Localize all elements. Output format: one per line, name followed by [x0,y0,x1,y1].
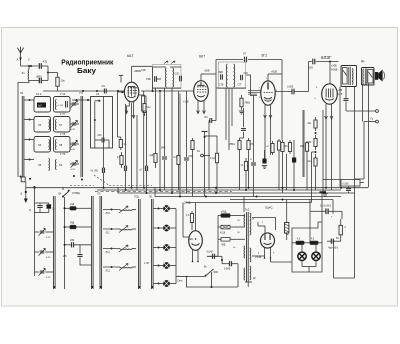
wire y179 right [323,180,364,183]
capacitor C1 А32 [39,60,48,69]
node osc [94,102,96,122]
svg-text:6-25: 6-25 [46,257,51,259]
contact K2 [153,225,176,232]
wire osc internal [94,120,96,148]
capacitor C28 [37,203,42,213]
coil Л10 [103,206,136,215]
svg-text:Л4: Л4 [38,143,42,147]
wire x103.5 [103,97,105,169]
lamps enclosure [292,222,322,272]
ground right [322,190,327,197]
svg-text:5А: 5А [336,237,339,240]
capacitor C23 к2 [140,166,148,193]
top wire segment2 [309,61,312,63]
capacitor C27 dark [262,150,267,169]
trimmer C row2 [70,120,79,131]
tap link 220 [218,238,245,247]
wire x191.5 [191,138,194,196]
svg-text:З4Д: З4Д [70,223,75,225]
capacitor C20 [344,87,349,111]
capacitor C19 К29 [309,59,339,70]
grid lines V2-V3 [248,91,261,95]
wire Гр down [355,122,364,180]
contact K5 [153,280,176,287]
wire x125.5 [125,104,127,166]
svg-text:0,005: 0,005 [287,86,294,89]
svg-text:4218: 4218 [220,233,226,235]
svg-text:20Я: 20Я [70,240,75,242]
wire y91 T1-V2 [141,90,194,92]
antenna A [17,47,24,66]
resistor chain R18 [308,154,318,170]
electrolytic C37 [285,200,289,241]
svg-text:6Г2: 6Г2 [262,54,268,58]
resistor R4 tall [142,91,147,187]
wire x117.5 [118,91,121,137]
svg-text:А32: А32 [43,60,48,64]
node row3 [24,139,34,141]
resistor R13 к2 [266,141,274,155]
resistor R8 0+ [174,91,181,190]
wire x308.5 drop [308,62,310,92]
svg-text:С1Б: С1Б [141,69,146,72]
svg-text:Л13: Л13 [106,270,111,273]
Тр2 primary w1 [243,214,246,226]
capacitor C14 top [245,57,247,63]
svg-text:С5: С5 [102,84,106,88]
wire V1 to R3 [138,95,144,100]
svg-text:6-25: 6-25 [71,169,76,171]
wire coil L1 down-left [18,81,29,97]
capacitor C13 С20 [175,73,182,82]
V3 labels [259,71,279,100]
node row2 [24,119,34,121]
capacitor C16 [238,73,249,87]
svg-text:4/З0В: 4/З0В [331,69,338,72]
wire Тр1 down [340,87,355,188]
svg-text:0,0Н5: 0,0Н5 [224,269,231,271]
svg-text:+б,3В: +б,3В [255,257,262,259]
rail x64.5 [64,197,66,289]
T2 top wire [216,52,282,60]
wire R20 bottom [338,240,341,242]
capacitor C38 5А [327,237,339,244]
svg-text:(П:ЗВД: (П:ЗВД [72,193,80,195]
capacitor C25 [184,91,193,193]
wire x216 drop [216,60,219,121]
resistor R7 к2Д [150,88,158,168]
svg-text:6Е5: 6Е5 [189,238,194,241]
lamp wires [292,243,322,272]
node row4 [24,159,34,161]
svg-text:С2 2': С2 2' [36,93,42,96]
T1 primary coil [164,61,168,87]
bar A [53,196,55,289]
coil box Л5 [38,159,49,171]
wire 0005 box [341,180,360,187]
Тр2 secondary w2 [250,248,262,262]
wire T2 right [246,75,257,96]
svg-text:Радиоприемник: Радиоприемник [61,57,113,66]
resistor R10 ЛВ0к [230,138,242,190]
switch Вк [204,267,218,277]
tube V4 6П3 [321,55,337,104]
tube V2 6К7 [194,55,209,102]
resistor R14 [281,140,284,193]
svg-text:6ЯЗ: 6ЯЗ [161,148,166,150]
coil box Л7 [54,114,71,132]
svg-text:210: 210 [98,134,103,137]
coil L1 [22,65,31,81]
bus y196 [155,187,341,198]
resistor R19 [186,211,194,225]
T2 shield box [219,62,246,89]
contact K1 [153,205,176,212]
bus y187 [26,187,369,189]
right frame [334,186,355,278]
V5 cathode pins [252,248,275,259]
ground З [20,188,27,203]
svg-text:2' Л6: 2' Л6 [60,94,66,96]
svg-text:6-25: 6-25 [71,129,76,131]
V1 pins bottom [125,101,135,119]
svg-text:Л5: Л5 [38,163,42,167]
svg-text:6К7: 6К7 [199,55,205,59]
contact K3 [153,244,176,251]
svg-text:1,Лб: 1,Лб [144,263,149,265]
wire bus y91 left [43,90,125,92]
coil Л11 [103,226,136,235]
wire x232 [231,88,233,126]
capacitor C17 И3 [205,116,217,190]
svg-text:6-25: 6-25 [71,149,76,151]
T1 secondary coil [171,61,175,87]
svg-text:+1ВБ: +1ВБ [204,70,210,73]
wire x137 [136,115,138,190]
svg-text:З: З [20,192,22,196]
speaker [375,69,385,81]
tube V3 6Г2 [261,54,275,106]
switch bar П4 label [20,91,24,95]
wire x160 [159,91,161,190]
tube V1 6А7 [124,54,138,102]
contact K4 [153,262,176,269]
capacitor C10 С5 [102,84,107,94]
wire V3-V4 y91.5 [275,91,309,93]
coil box Л6 [54,94,71,112]
resistor ladder З4Д [64,223,92,229]
label Сеть [177,274,183,283]
trimmer C row4 [70,160,79,171]
terminal ЗС [197,151,210,157]
label 5Ц4С [265,206,274,210]
coil Л12 [103,245,136,254]
resistor R5 ЛВ0к [240,95,251,110]
capacitor C2 ВИ0 [29,75,48,84]
svg-text:С7Б: С7Б [219,85,224,87]
wire x368.5 down [368,111,370,187]
trimmer C32 [35,268,54,279]
svg-text:Сеть: Сеть [177,279,183,283]
svg-text:6А7: 6А7 [127,54,133,58]
lamp link R21 [296,239,304,245]
resistor R2 +6 [119,137,127,150]
wire x286.5 [286,154,288,190]
Тр2 primary w3 [243,268,246,280]
resistor R11 ЛЗ [247,138,254,187]
resistor R20 [339,219,347,241]
wire mains to trans [237,264,239,287]
coil box Л4 [34,137,51,153]
switch bar П4 [21,96,31,188]
svg-text:Л3: Л3 [38,123,42,127]
bus y193 [118,187,355,194]
svg-text:Л1: Л1 [22,71,26,75]
svg-text:Л12: Л12 [106,251,111,254]
wire x244 T2 [243,197,245,213]
V6 pins [192,250,199,262]
top-cap wire V1 [119,71,141,83]
wire antenna to C1 [21,58,39,68]
wire x172 [171,88,173,193]
tube V5 5Ц4С [261,233,275,248]
Тр2 primary w2 [243,246,246,258]
svg-text:+В2В: +В2В [271,71,277,74]
V4 pins [325,104,333,119]
capacitor C40 [240,108,246,138]
svg-text:П4: П4 [20,91,24,95]
cap group wires [35,203,49,276]
terminal Гр top [346,110,378,113]
switch bar П1 [20,96,84,181]
capacitor C12 С2Б [146,76,161,82]
bar B [91,196,93,289]
V1 pin left [118,91,125,93]
T2 primary coil [226,64,227,87]
V5 +B wire [271,258,293,262]
resistor R12 ч0 [241,158,248,190]
label 20+20 [320,205,332,208]
svg-text:Ч1·300: Ч1·300 [91,171,99,173]
mains bottom wire [186,272,238,288]
V5 anode wires [252,218,276,233]
V6 top wire [192,203,196,231]
wire x322 down [321,193,323,222]
terminal Гр bottom [364,117,378,123]
tap link 127 [218,225,245,234]
bus y202 [186,202,312,204]
wire x333 up [332,200,334,214]
V3 pins arrows [264,105,272,119]
trimmer C30 [35,228,54,239]
T2 bottom wire [219,87,247,89]
svg-text:0,0Н2: 0,0Н2 [207,252,214,254]
label ИВ [338,89,343,96]
mains wire [186,276,205,278]
wire C1-C2 right link [47,66,49,81]
resistor chain R17 [308,135,318,153]
wire chain down [315,170,317,190]
V4 side labels [315,87,319,100]
svg-text:2' Л8: 2' Л8 [60,134,66,136]
bar C [98,194,102,290]
svg-text:Л11: Л11 [106,232,111,235]
svg-text:С2Б: С2Б [146,78,151,81]
coil box Л9 [55,154,65,170]
Тр2 secondary w1 [250,213,255,235]
capacitor C18 0.005 [287,86,294,95]
output transformer Тр1 [341,66,357,87]
label З2 5Д [184,202,191,205]
resistor R13b [277,139,280,190]
V4 pin drops [326,119,332,190]
T1 shield box [153,65,182,89]
V2 anode wire [201,70,216,81]
wire x311 down2 [311,193,313,203]
caps group label [29,209,31,212]
svg-text:5Ц4С: 5Ц4С [265,206,274,210]
coil box Л3 [34,117,51,133]
capacitor C11 210 [95,134,109,148]
svg-text:6-125: 6-125 [58,105,64,107]
node row1 [24,99,91,101]
svg-text:Л10: Л10 [106,212,111,215]
switch В1 blade [59,187,80,198]
svg-text:Тр2: Тр2 [245,209,250,212]
svg-text:ВИ0: ВИ0 [37,75,43,79]
wire V1 anode up [132,66,153,82]
label +12В [183,101,189,104]
switch bar П1 label [80,91,84,95]
wire V3 pin drops [265,118,271,160]
capacitor C29 dark [47,203,57,213]
wire x180 [179,94,181,197]
svg-text:6ЛЗГ: 6ЛЗГ [321,55,332,60]
svg-text:Л9: Л9 [59,163,63,167]
svg-text:к7ВД: к7ВД [221,212,227,214]
wire x131.5 [131,103,133,187]
svg-text:ЗЧ: ЗЧ [197,151,200,153]
svg-text:ВД0: ВД0 [219,72,224,74]
bar D [134,197,140,290]
svg-text:+12В: +12В [183,101,189,104]
capacitor C35 0,0Н5 [221,256,238,270]
tube V6 6Е5С [189,231,203,251]
tap link 110 [218,212,245,218]
resistor R15 6ЯЗ [285,140,292,154]
svg-text:Л7: Л7 [59,123,63,127]
dial lamp HL1 [298,252,306,260]
resistor R3 Ч1к [143,100,152,116]
resistor ladder К4Д [64,204,92,210]
dashed enclosure [70,175,152,185]
contact rail [176,209,187,284]
ground under R5 [239,111,244,114]
svg-text:к2Д: к2Д [150,155,154,157]
resistor R23 [300,141,309,190]
svg-text:0,005: 0,005 [343,183,350,186]
dial lamp HL2 [312,252,320,260]
svg-text:0,1Д: 0,1Д [210,158,215,160]
svg-text:4): 4) [29,209,31,212]
resistor R6 04Д [117,152,123,168]
svg-text:С20: С20 [175,73,180,76]
label 1Лб [144,263,149,265]
switch linkage dashes [95,190,232,192]
V6 left wire [183,203,189,238]
wire x146.5 [146,111,148,166]
wire x311 stub [312,152,316,193]
wire x323 [322,110,324,193]
lamp link R22 [310,239,318,245]
svg-text:+20В: +20В [331,65,337,68]
T1 bottom wire [153,87,182,89]
svg-text:К4Д: К4Д [70,204,75,206]
resistor R9 С/Д [205,136,219,193]
wire x229 [228,88,230,150]
svg-text:А: А [17,58,19,62]
resistor chain R16 [308,117,318,134]
trimmer C row3 [70,140,79,151]
svg-text:К29: К29 [309,67,314,70]
svg-text:Баку: Баку [77,66,97,75]
capacitor C34 0,0Н2 [207,252,223,259]
wire x282 long [281,60,283,141]
svg-text:20Д: 20Д [300,146,305,148]
resistor R1 10k [48,73,65,92]
capacitor C33 к55 [63,245,92,265]
svg-text:Л7: Л7 [243,52,247,56]
capacitor C24 6ЯЗ [161,88,167,190]
svg-text:2' Л7: 2' Л7 [60,114,66,116]
capacitor C39 in box [346,186,351,193]
top-cap bar V6 [202,132,208,197]
cap ladder 20Я [64,240,92,247]
wire left rail [17,96,19,177]
component dark x294 [292,140,296,190]
oscillator box [91,93,113,148]
trimmer C31 [35,248,54,259]
Тр2 bottom wire [245,282,252,287]
V3 anode up [268,74,282,81]
svg-text:6-25: 6-25 [46,277,51,279]
Тр2 secondary w3 [250,266,257,280]
tap rail [207,216,218,257]
wire x226 [225,88,227,140]
T1 top wire [153,66,182,68]
potentiometer body [302,110,304,177]
coil box Л2 [34,93,51,112]
svg-text:6-25: 6-25 [46,237,51,239]
svg-text:П7Д: П7Д [134,197,139,199]
capacitor C26 [250,96,256,197]
capacitor C36 electrolytic [310,200,342,243]
svg-text:Др: Др [361,59,365,63]
wire T1 left down [141,67,153,91]
bus y199 [230,199,333,201]
bar E [149,197,153,290]
T2 secondary coil [234,64,235,87]
speaker wires [363,84,369,122]
capacitor C22 [125,166,127,190]
svg-text:2' Л9: 2' Л9 [60,154,66,156]
dark junction [320,191,327,193]
wire V4 top [329,62,331,85]
coil Л13 [103,264,136,273]
choke Др [361,59,374,85]
transformer Тр2 core [245,209,250,283]
trimmer C row1 [70,100,79,107]
